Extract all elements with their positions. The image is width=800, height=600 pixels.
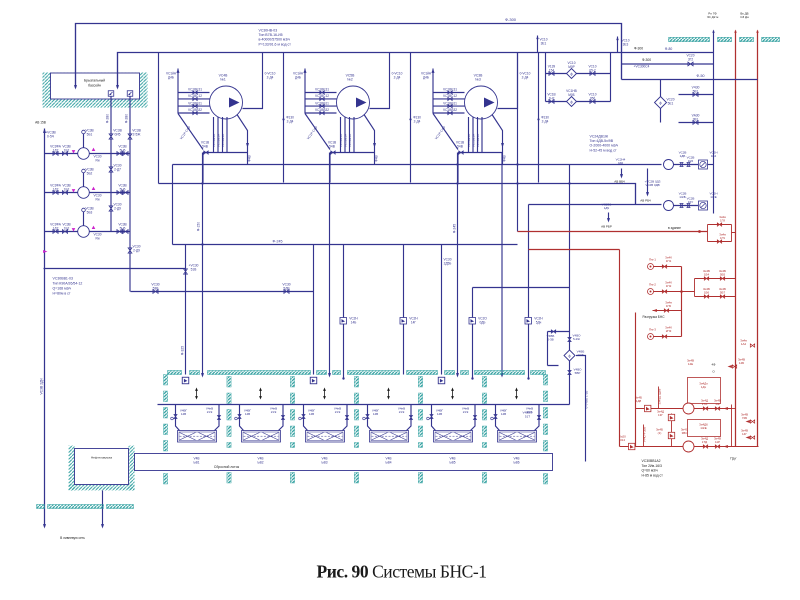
wall: top right hatched bars <box>669 37 710 41</box>
svg-text:Н=80м в ст: Н=80м в ст <box>53 292 71 296</box>
svg-text:5Б7: 5Б7 <box>720 291 726 295</box>
valve VА30 3В1 on riser <box>679 122 714 124</box>
svg-text:VC1В21А: VC1В21А <box>476 134 480 147</box>
svg-text:Ф-300: Ф-300 <box>634 47 643 51</box>
svg-text:14Б: 14Б <box>351 320 357 324</box>
tank: spray pond (hatched basin) <box>43 73 148 108</box>
svg-text:ЬВ6: ЬВ6 <box>514 460 520 464</box>
svg-text:АВ РБР: АВ РБР <box>601 225 612 229</box>
filter branch rows <box>546 53 611 102</box>
svg-text:2-Д4: 2-Д4 <box>287 119 294 123</box>
svg-text:3В1: 3В1 <box>693 118 699 122</box>
svg-text:АВ РБ4: АВ РБ4 <box>640 199 651 203</box>
svg-text:VC30НВ-03: VC30НВ-03 <box>259 29 278 33</box>
svg-text:2-Д4: 2-Д4 <box>542 119 549 123</box>
svg-text:VC1ВВ11: VC1ВВ11 <box>443 101 457 105</box>
box valve at 343 <box>340 318 347 325</box>
svg-text:Уч4О 4-3ВВ: Уч4О 4-3ВВ <box>643 427 647 443</box>
gate at 313 <box>310 377 317 384</box>
svg-text:O-2000-4000 м3/ч: O-2000-4000 м3/ч <box>590 144 619 148</box>
svg-text:2-Д4: 2-Д4 <box>267 75 274 79</box>
svg-text:5Б2: 5Б2 <box>87 171 93 175</box>
svg-text:Ф-280: Ф-280 <box>125 114 129 123</box>
drain pump N1 <box>72 150 76 153</box>
svg-text:VC1В21А: VC1В21А <box>467 134 471 147</box>
wall column at 228.5 <box>227 377 231 388</box>
red pump B2 <box>683 441 694 452</box>
svg-text:314: 314 <box>620 438 625 442</box>
svg-text:0ДБ: 0ДБ <box>479 320 485 324</box>
svg-text:Ф4В: Ф4В <box>503 155 507 161</box>
flow marks <box>195 388 198 391</box>
svg-text:13Г: 13Г <box>658 413 663 417</box>
svg-text:05б: 05б <box>590 96 596 100</box>
svg-text:VC1ВЕ31: VC1ВЕ31 <box>443 88 457 92</box>
svg-text:Rи: Rи <box>95 236 99 240</box>
svg-text:VC1Р С4Э: VC1Р С4Э <box>179 125 192 141</box>
valve VC10 05B <box>590 100 595 104</box>
wire: bypass riser F130 at VС4В №1 <box>283 53 285 183</box>
main circulation pump VС3В №3 <box>432 69 434 114</box>
HX4 outlet pipe <box>407 405 412 431</box>
svg-text:АВ 15В: АВ 15В <box>35 121 46 125</box>
svg-text:+VC300С4: +VC300С4 <box>634 65 650 69</box>
gate at 441 <box>438 377 445 384</box>
trunk y=244 <box>173 244 518 246</box>
gate at 185 <box>182 377 189 384</box>
wall: right column <box>543 375 547 386</box>
valves on row 3 discharge <box>117 230 122 234</box>
HX6 outlet pipe <box>535 405 540 431</box>
wire x=172 <box>172 165 174 245</box>
filter diamond VC20 5E1 <box>660 80 662 123</box>
svg-text:VC1ВВ32: VC1ВВ32 <box>188 108 202 112</box>
filter VC1NV <box>567 97 577 107</box>
svg-text:54В: 54В <box>202 144 208 148</box>
wire: header y=291 left <box>131 291 314 293</box>
main circulation pump VС4В №1 <box>177 69 179 114</box>
svg-text:Ф-325: Ф-325 <box>181 346 185 355</box>
box valve at 472 <box>469 318 476 325</box>
wall column at 484 <box>482 377 486 388</box>
svg-text:1Н2: 1Н2 <box>549 96 555 100</box>
svg-text:1Д2: 1Д2 <box>53 226 59 230</box>
svg-text:1Б4: 1Б4 <box>704 273 710 277</box>
svg-text:3и4вД 1ДВ8: 3и4вД 1ДВ8 <box>658 388 662 404</box>
instrument box A1 <box>699 160 708 169</box>
svg-text:VC1В21А: VC1В21А <box>472 134 476 147</box>
svg-text:№1: №1 <box>220 78 226 82</box>
valve on x=129.5 <box>128 248 132 253</box>
valve V4VO 5VR <box>568 370 571 374</box>
svg-text:Ф-300: Ф-300 <box>505 17 517 22</box>
svg-text:№3: №3 <box>475 78 481 82</box>
svg-text:ЬВ3: ЬВ3 <box>322 460 328 464</box>
svg-text:5Е1: 5Е1 <box>668 101 674 105</box>
HX3 inlet pipe <box>304 405 308 431</box>
svg-text:VC1В21А: VC1В21А <box>221 134 225 147</box>
heat exchanger HX6 <box>498 431 537 443</box>
svg-text:1Г8: 1Г8 <box>720 219 725 223</box>
svg-text:Пм-1: Пм-1 <box>649 258 656 262</box>
valve V4VO 5-2Zh <box>568 337 571 341</box>
svg-text:VC3В 2ДЧ: VC3В 2ДЧ <box>40 378 44 394</box>
svg-text:5-2Ж: 5-2Ж <box>573 337 580 341</box>
svg-text:(1): (1) <box>658 431 662 435</box>
svg-text:VC1Р С4Э: VC1Р С4Э <box>306 125 319 141</box>
wire x=313 to gate <box>313 245 315 375</box>
svg-text:Ф4В: Ф4В <box>375 155 379 161</box>
svg-text:1Г9: 1Г9 <box>720 236 725 240</box>
fire pump Pm-2 <box>648 289 654 295</box>
svg-text:Ф-80: Ф-80 <box>665 47 673 51</box>
svg-text:№2: №2 <box>347 78 353 82</box>
wire: left trunk x=44 <box>44 129 46 527</box>
svg-text:21Э: 21Э <box>335 410 341 414</box>
wire: pond outlet F-280 right <box>129 96 131 292</box>
drain pump N2 <box>72 189 76 192</box>
svg-text:1ЖБ: 1ЖБ <box>679 195 685 199</box>
red trunk x=635 <box>635 313 637 447</box>
svg-text:51В: 51В <box>191 267 197 271</box>
svg-text:0Д2: 0Д2 <box>618 161 624 165</box>
wall: left column <box>163 375 167 386</box>
wire: F-50 crossover <box>622 79 758 81</box>
svg-text:2-Д4: 2-Д4 <box>414 119 421 123</box>
svg-text:Сбросной лоток: Сбросной лоток <box>214 465 240 469</box>
svg-text:0-V4ВО 1-2Б: 0-V4ВО 1-2Б <box>585 391 589 409</box>
booster pump set row 1 <box>636 408 732 410</box>
svg-text:М0Б: М0Б <box>568 93 575 97</box>
svg-text:11Р: 11Р <box>715 440 720 444</box>
svg-text:Ф-280: Ф-280 <box>106 114 110 123</box>
svg-text:14Б: 14Б <box>739 361 744 365</box>
wire: bypass riser F130 at VС5В №2 <box>410 53 412 183</box>
svg-text:5ВР: 5ВР <box>575 371 581 375</box>
svg-text:Ф-150: Ф-150 <box>197 222 201 231</box>
svg-text:Rи: Rи <box>95 197 99 201</box>
svg-text:Rи: Rи <box>95 158 99 162</box>
svg-text:1ЖЕ: 1ЖЕ <box>710 195 716 199</box>
svg-text:21Э: 21Э <box>207 410 213 414</box>
svg-text:2-Д9: 2-Д9 <box>114 206 121 210</box>
svg-text:1Д8: 1Д8 <box>636 399 642 403</box>
svg-text:1Д2: 1Д2 <box>53 148 59 152</box>
svg-text:1П1: 1П1 <box>666 259 672 263</box>
red trunk valves right <box>750 344 754 347</box>
svg-text:14В: 14В <box>309 412 314 416</box>
check valve on pump 1 stem <box>83 134 85 148</box>
svg-text:Пм-3: Пм-3 <box>649 328 656 332</box>
svg-text:М0Р: М0Р <box>568 65 575 69</box>
wire x=329 pool arrow <box>329 153 331 376</box>
svg-text:Ф-300: Ф-300 <box>642 58 651 62</box>
valves on row 2 discharge <box>117 191 122 195</box>
red header 2 <box>529 249 620 251</box>
riser: blue to sprayers <box>713 31 715 214</box>
svg-text:VC2В 0ДВ: VC2В 0ДВ <box>645 183 659 187</box>
svg-text:О: О <box>712 370 715 374</box>
gate G2 at pond bottom <box>127 91 133 97</box>
svg-text:Тип 2Ив-16/3: Тип 2Ив-16/3 <box>642 464 663 468</box>
fire pump Pm-1 <box>648 264 654 270</box>
svg-text:Пм-2: Пм-2 <box>649 283 656 287</box>
valve VC1V 1N2 <box>549 100 554 104</box>
svg-text:Р=133/91.6 м вод ст: Р=133/91.6 м вод ст <box>259 42 292 46</box>
drain pump N3 <box>72 228 76 231</box>
svg-text:2-5Ж: 2-5Ж <box>133 132 141 136</box>
svg-text:2-Д9: 2-Д9 <box>133 248 140 252</box>
riser stub x=617 <box>617 37 619 53</box>
svg-text:2П3: 2П3 <box>666 329 672 333</box>
svg-text:1П2: 1П2 <box>666 284 672 288</box>
svg-text:5В1: 5В1 <box>693 90 699 94</box>
valve V139 154 <box>549 72 554 76</box>
HX6 inlet pipe <box>496 405 500 431</box>
fire pump Pm-3 <box>648 334 654 340</box>
svg-text:1Б2: 1Б2 <box>64 148 70 152</box>
wire x=472 <box>472 288 474 379</box>
booster pump set row 2 <box>620 446 759 448</box>
svg-text:2-Д7: 2-Д7 <box>114 167 121 171</box>
red collector x=681 <box>681 267 683 337</box>
svg-text:1ДЧ: 1ДЧ <box>604 206 610 210</box>
svg-text:В ливневую сеть: В ливневую сеть <box>60 536 85 540</box>
small pump row 2 <box>45 192 131 194</box>
svg-text:ЬВ5: ЬВ5 <box>450 460 456 464</box>
svg-text:1ДБ: 1ДБ <box>680 154 686 158</box>
collector valve VC30 2D7 <box>109 167 113 172</box>
svg-text:1ТА: 1ТА <box>702 402 707 406</box>
small pump row 3 <box>45 231 131 233</box>
svg-text:1ТД: 1ТД <box>702 440 707 444</box>
svg-text:14Г: 14Г <box>742 432 747 436</box>
svg-text:Д4Б: Д4Б <box>295 75 301 79</box>
small boxes column <box>671 414 673 447</box>
svg-text:ЬВ2: ЬВ2 <box>258 460 264 464</box>
red loop 2 <box>695 279 736 297</box>
svg-text:1Ж: 1Ж <box>715 402 720 406</box>
svg-text:16У: 16У <box>688 200 693 204</box>
instrument box A2 <box>699 201 708 210</box>
wire: bypass riser F130 at VС3В №3 <box>538 53 540 183</box>
svg-text:14В: 14В <box>245 412 250 416</box>
wall column at 420 <box>418 377 422 388</box>
svg-text:2-Д4: 2-Д4 <box>394 75 401 79</box>
wire x=343 <box>343 245 345 379</box>
heat exchanger HX2 <box>242 431 281 443</box>
wall column at 356 <box>354 377 358 388</box>
svg-text:154: 154 <box>549 68 555 72</box>
svg-text:бассейн: бассейн <box>88 84 101 88</box>
check valve on pump 3 stem <box>83 212 85 226</box>
svg-text:VC30ВВ1-03: VC30ВВ1-03 <box>53 277 73 281</box>
wire: header y=287 right <box>473 287 570 289</box>
svg-text:3Е3: 3Е3 <box>623 42 629 46</box>
svg-text:Q=60 м3/ч: Q=60 м3/ч <box>642 469 658 473</box>
svg-text:1Д2: 1Д2 <box>53 187 59 191</box>
svg-text:14В: 14В <box>437 412 442 416</box>
svg-text:5Б3: 5Б3 <box>87 210 93 214</box>
valve VC30 5DV <box>284 290 289 294</box>
svg-text:1Е4: 1Е4 <box>711 154 717 158</box>
svg-text:VC1ВВ11: VC1ВВ11 <box>315 101 329 105</box>
valve VC10 05-2 <box>590 72 595 76</box>
wire x=403 <box>403 245 405 375</box>
valve VC20 3G2 on header <box>688 62 693 66</box>
relief line with arrow <box>653 310 682 312</box>
svg-text:Д4Б: Д4Б <box>423 75 429 79</box>
svg-text:VC1В21А: VC1В21А <box>339 134 343 147</box>
svg-text:0И5: 0И5 <box>114 132 120 136</box>
svg-text:Брызгальный: Брызгальный <box>84 79 105 83</box>
wire: diamond to drain channel <box>576 356 586 462</box>
drain stubs with arrows <box>621 169 623 177</box>
manifold y=404 <box>158 404 570 406</box>
riser: red fire line 2 <box>757 31 759 447</box>
wall: lower teal bar <box>37 505 45 509</box>
heat exchanger HX1 <box>178 431 217 443</box>
gate G1 at pond bottom <box>108 91 114 97</box>
wire y=204 to aux pump 2 <box>529 204 662 206</box>
svg-text:1Дх: 1Дх <box>701 385 707 389</box>
svg-text:21Э: 21Э <box>399 410 405 414</box>
filter VC10 M0R <box>567 69 577 79</box>
svg-text:VC1ВС12: VC1ВС12 <box>443 94 457 98</box>
valves on row 1 discharge <box>117 152 122 156</box>
tank: oil trap (hatched) <box>69 446 75 491</box>
svg-text:5Б1: 5Б1 <box>87 132 93 136</box>
svg-text:05-2: 05-2 <box>589 68 596 72</box>
svg-text:ЬВ1: ЬВ1 <box>194 460 200 464</box>
HX1 outlet pipe <box>215 405 220 431</box>
svg-text:ЧС Д2 м: ЧС Д2 м <box>707 15 719 19</box>
trunk y=164 <box>173 164 662 166</box>
svg-text:1А2: 1А2 <box>741 342 747 346</box>
svg-text:53В: 53В <box>153 286 160 290</box>
wire x=457 pool arrow <box>457 153 459 376</box>
svg-text:Пд-г: Пд-г <box>730 457 737 461</box>
HX5 outlet pipe <box>471 405 476 431</box>
svg-text:2Д5Б: 2Д5Б <box>444 261 452 265</box>
small pump row 1 <box>45 153 131 155</box>
svg-text:в здание: в здание <box>668 226 681 230</box>
svg-text:14Г: 14Г <box>411 320 417 324</box>
wire: secondary header y=63.5 <box>622 63 714 65</box>
svg-text:54В: 54В <box>329 144 335 148</box>
aux pump A1 <box>664 160 674 170</box>
svg-text:VC1В21А: VC1В21А <box>217 134 221 147</box>
svg-text:Н-52-45 м вод ст: Н-52-45 м вод ст <box>590 148 617 152</box>
svg-text:1ЖЕ: 1ЖЕ <box>700 426 706 430</box>
svg-text:VC1В21А: VC1В21А <box>344 134 348 147</box>
svg-text:1Е5: 1Е5 <box>688 159 694 163</box>
svg-text:VC1ВС12: VC1ВС12 <box>188 94 202 98</box>
red header 1 <box>518 231 708 233</box>
red loop 1 <box>708 225 736 242</box>
filter diamond V4VB 1ZhT <box>569 332 571 405</box>
wall column at 292 <box>290 377 294 388</box>
vertical x=569 <box>569 165 571 332</box>
svg-text:14В: 14В <box>501 412 506 416</box>
wire: top trunk F-300 into pond <box>76 24 622 88</box>
wire x=502 pool arrow <box>501 153 503 376</box>
collector valve VC30 2D9 <box>109 206 113 211</box>
magenta marker <box>43 250 47 253</box>
svg-text:Ф-245: Ф-245 <box>273 240 283 244</box>
aux pump A2 <box>664 201 674 211</box>
valve VC3V 0I5 <box>109 134 113 139</box>
svg-text:VC1ВС12: VC1ВС12 <box>315 94 329 98</box>
wall: pool top edge <box>168 371 182 375</box>
svg-text:Ф-50: Ф-50 <box>697 74 705 78</box>
svg-text:Тип К90А/26/54-12: Тип К90А/26/54-12 <box>53 282 83 286</box>
svg-text:5Дч: 5Дч <box>536 320 542 324</box>
svg-text:VC1ВВ11: VC1ВВ11 <box>188 101 202 105</box>
svg-text:Н-85 м вод ст: Н-85 м вод ст <box>642 473 664 477</box>
svg-text:VC1ВЕ31: VC1ВЕ31 <box>188 88 202 92</box>
svg-text:VC1ВВ32: VC1ВВ32 <box>443 108 457 112</box>
trunk y=183 <box>159 184 636 205</box>
vertical x=517 output riser P3 / down leg <box>517 53 519 232</box>
loop with filter near wall <box>548 332 570 366</box>
valve VC3V 2-5Zh <box>128 134 132 139</box>
svg-text:VC30ВВ1А2: VC30ВВ1А2 <box>642 459 661 463</box>
svg-text:1Б2: 1Б2 <box>64 187 70 191</box>
svg-text:3Г2: 3Г2 <box>688 57 693 61</box>
wire: return header y=268 <box>44 268 186 270</box>
svg-text:VC1В21А: VC1В21А <box>348 134 352 147</box>
svg-text:Нефтеловушка: Нефтеловушка <box>91 456 112 460</box>
svg-text:72Б: 72Б <box>742 416 747 420</box>
svg-text:VC1ВЕ31: VC1ВЕ31 <box>315 88 329 92</box>
wire: suction header y=52 <box>118 53 714 88</box>
svg-text:Q=168 м3/ч: Q=168 м3/ч <box>53 287 72 291</box>
svg-text:54В: 54В <box>457 144 463 148</box>
wire: oil trap outlet <box>102 491 104 527</box>
svg-text:в-40000/57500 м3/ч: в-40000/57500 м3/ч <box>259 38 291 42</box>
svg-text:АВ ВБ4: АВ ВБ4 <box>614 180 625 184</box>
main circulation pump VС5В №2 <box>304 69 306 114</box>
HX2 outlet pipe <box>279 405 284 431</box>
svg-text:4Ф: 4Ф <box>712 363 717 367</box>
valve VC30 51V <box>184 269 188 274</box>
svg-text:14В: 14В <box>373 412 378 416</box>
svg-text:5Н6: 5Н6 <box>120 226 126 230</box>
riser: red fire line 1 <box>735 31 737 447</box>
riser with arrow x=537 <box>537 36 539 53</box>
svg-text:VC1В21А: VC1В21А <box>212 134 216 147</box>
junction dots <box>456 182 458 184</box>
svg-text:Тип 4ДВ-5х/9В: Тип 4ДВ-5х/9В <box>590 139 614 143</box>
svg-text:ЬВ4: ЬВ4 <box>386 460 392 464</box>
wire x=528 down to pool <box>528 205 530 379</box>
HX2 inlet pipe <box>240 405 244 431</box>
box valve VC2N 5Dch <box>525 318 532 325</box>
svg-text:21Э: 21Э <box>527 410 533 414</box>
drain channel <box>135 454 553 471</box>
svg-text:Ф4В: Ф4В <box>248 155 252 161</box>
HX4 inlet pipe <box>368 405 372 431</box>
svg-text:СЗ Дн: СЗ Дн <box>740 15 749 19</box>
right trunk tie valves <box>750 420 754 423</box>
svg-text:VC1ВВ32: VC1ВВ32 <box>315 108 329 112</box>
wire x=185 to gate <box>185 245 187 375</box>
svg-text:Д4Б: Д4Б <box>168 75 174 79</box>
valve VЧ30 5В1 on riser <box>679 94 714 96</box>
svg-text:VC24ДВ1Ж: VC24ДВ1Ж <box>590 135 609 139</box>
svg-text:Тип В7В-16-И5: Тип В7В-16-И5 <box>259 33 283 37</box>
